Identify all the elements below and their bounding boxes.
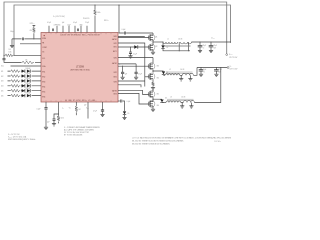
wire SYNC stub down xyxy=(87,102,89,119)
diode D31 (LED B) xyxy=(27,69,30,72)
svg-text:L1 TO L3: EACH INDUCTOR WOUND: L1 TO L3: EACH INDUCTOR WOUND ON SEPARAT… xyxy=(132,137,232,140)
wire IC top pin stubs xyxy=(49,26,87,33)
wire row 3 xyxy=(8,80,42,82)
transistor M4 (bridge B low side) xyxy=(148,73,155,80)
ground below T3 stub 2 xyxy=(189,106,193,108)
capacitor C18 comp xyxy=(3,55,5,58)
ground below D5 xyxy=(122,117,126,119)
capacitor C14 SS xyxy=(44,108,47,109)
wire T3 secondary stubs xyxy=(182,103,191,106)
wire row 1 xyxy=(8,70,42,72)
svg-text:ISN3: ISN3 xyxy=(113,94,117,96)
svg-text:FB: FB xyxy=(42,42,44,44)
wire RT stub xyxy=(58,102,60,116)
ground below C6 xyxy=(130,54,132,56)
svg-text:100k: 100k xyxy=(97,12,101,14)
svg-text:1N5062: 1N5062 xyxy=(26,88,31,90)
transformer T3 primary winding xyxy=(166,101,181,102)
wire row 6 xyxy=(8,95,42,97)
wire T1 secondary stubs xyxy=(179,42,188,51)
diode D21 (LED A) xyxy=(22,69,25,72)
wire PWM RC line xyxy=(12,38,41,40)
ground below C7 xyxy=(198,50,202,52)
transistor M1 (bridge A high side) xyxy=(152,33,154,36)
diode D36 (LED B) xyxy=(27,94,30,97)
node bridge A switch xyxy=(152,41,153,42)
capacitor C17 VC 0.1uF xyxy=(118,100,120,102)
svg-text:BST1: BST1 xyxy=(113,51,117,53)
ground below C16 xyxy=(100,114,104,116)
svg-text:4.7µF: 4.7µF xyxy=(138,73,142,75)
svg-text:VOUT: VOUT xyxy=(229,54,233,56)
IC U1 pin ticks top xyxy=(46,33,111,35)
svg-text:COMP: COMP xyxy=(42,47,47,49)
capacitor C7 output A first xyxy=(199,42,201,46)
capacitor C1 series xyxy=(22,38,23,41)
ground below stub xyxy=(10,45,14,47)
transistor M6 (bridge C low side) xyxy=(148,100,155,107)
transistor M5 (bridge C high side) xyxy=(152,89,154,91)
diode D2 (stage B rectifier) xyxy=(162,71,165,74)
wire SS stub xyxy=(45,102,47,108)
svg-text:1µF: 1µF xyxy=(84,105,87,107)
svg-text:10V TO 20V: 10V TO 20V xyxy=(230,69,238,71)
svg-text:ISN1: ISN1 xyxy=(113,47,117,49)
capacitor C6 bootstrap xyxy=(130,47,132,52)
ground below C14 wire xyxy=(44,127,48,129)
transformer T1 secondary winding xyxy=(180,42,191,44)
diode D32 (LED B) xyxy=(27,74,30,77)
wire VX sense rail (top inner) xyxy=(14,5,231,55)
resistor R1 divider (VOUT feedback) xyxy=(5,54,14,57)
svg-text:DI2: DI2 xyxy=(1,76,4,78)
svg-text:VSFB: VSFB xyxy=(86,108,89,110)
svg-text:SW1: SW1 xyxy=(113,36,116,38)
svg-text:SS GND RT SYNC INTVCC: SS GND RT SYNC INTVCC VC GND xyxy=(65,100,96,102)
IC U1 pin ticks bottom xyxy=(46,100,111,102)
svg-text:EN6: EN6 xyxy=(42,97,45,99)
wire second line into pin xyxy=(20,43,41,45)
svg-text:M5: M5 xyxy=(157,93,159,95)
ground below C12 xyxy=(121,77,125,79)
svg-text:M6: M6 xyxy=(157,105,159,107)
svg-text:(EXPOSED PAD IS GND): (EXPOSED PAD IS GND) xyxy=(70,68,90,71)
svg-text:1:0.33: 1:0.33 xyxy=(180,69,184,71)
svg-text:1N5062: 1N5062 xyxy=(26,93,31,95)
svg-text:1N5062: 1N5062 xyxy=(26,83,31,85)
wire VOUT sense rail (top outer) xyxy=(4,2,227,55)
svg-text:SCL: SCL xyxy=(42,58,45,60)
svg-text:22µF: 22µF xyxy=(218,69,221,71)
svg-text:L3: L3 xyxy=(170,96,172,98)
diode D3 (stage C rectifier) xyxy=(160,100,163,103)
wire ISP2 stub xyxy=(118,80,145,82)
svg-text:DI5: DI5 xyxy=(1,91,4,93)
svg-text:DI1: DI1 xyxy=(1,71,4,73)
capacitor C8 output A second xyxy=(210,42,212,46)
svg-text:VC: VC xyxy=(69,107,71,109)
IC U1 LT3598 body xyxy=(41,33,118,103)
capacitor C13 4.7uF xyxy=(135,64,137,72)
svg-text:VX: VX xyxy=(230,66,232,68)
transformer T1 primary winding xyxy=(163,42,178,43)
wire switch node B to T2 xyxy=(164,74,166,76)
capacitor C16 INTVCC 4.7uF xyxy=(102,102,104,110)
resistor R8 pull xyxy=(75,102,77,106)
svg-text:12V TO 20V: 12V TO 20V xyxy=(229,57,237,59)
capacitor C15 xyxy=(54,114,59,119)
svg-text:100pF: 100pF xyxy=(10,31,14,33)
svg-text:BT TO BG: BSC0402NS: BT TO BG: BSC0402NS xyxy=(64,134,83,136)
svg-text:SCL: SCL xyxy=(1,66,4,68)
resistor R4 (PGOOD pullup) xyxy=(94,5,96,10)
node bridge B switch xyxy=(152,70,153,71)
capacitor C3 (INTVCC bypass) xyxy=(77,29,78,32)
transistor M3 (bridge B high side) xyxy=(118,58,153,64)
svg-text:1µF: 1µF xyxy=(62,22,65,24)
svg-text:EN5: EN5 xyxy=(42,92,45,94)
svg-text:SW3: SW3 xyxy=(113,82,116,84)
svg-text:INTVCC: INTVCC xyxy=(104,20,109,22)
capacitor C11 output B second xyxy=(215,68,217,70)
svg-text:22µF: 22µF xyxy=(203,45,206,47)
terminal VOUT xyxy=(226,54,228,56)
capacitor C10 output B first xyxy=(200,68,202,70)
diode D1 (stage A rectifier) xyxy=(162,41,163,42)
svg-text:VIN (10V TO 30V): VIN (10V TO 30V) xyxy=(53,16,65,18)
svg-text:INTVCC: INTVCC xyxy=(30,23,35,25)
wire switch node C to T3 xyxy=(162,102,166,104)
svg-text:1N5062: 1N5062 xyxy=(26,78,31,80)
ground below C11 xyxy=(214,74,218,76)
wire stub to ground xyxy=(11,39,13,46)
zener diode D5 xyxy=(123,101,125,111)
svg-text:EN2: EN2 xyxy=(42,77,45,79)
transistor M2 (bridge A low side) xyxy=(148,44,155,51)
svg-text:EN3: EN3 xyxy=(42,82,45,84)
ground below M6 xyxy=(152,106,154,109)
capacitor C4 0.1uF (boost) xyxy=(124,32,125,35)
terminal VX xyxy=(227,67,229,69)
svg-text:10k: 10k xyxy=(25,60,28,62)
svg-text:22µF: 22µF xyxy=(203,69,206,71)
wire gate drive M4 xyxy=(145,76,149,78)
svg-text:fSW: fSW xyxy=(62,107,64,109)
svg-text:1N5062: 1N5062 xyxy=(26,73,31,75)
resistor R11 xyxy=(10,70,20,73)
svg-text:SS: SS xyxy=(42,51,44,53)
diode D22 (LED A) xyxy=(22,74,25,77)
resistor R7 sense (bridge B) xyxy=(152,80,154,82)
resistor R12 xyxy=(10,75,20,78)
svg-text:4.7µF: 4.7µF xyxy=(47,22,51,24)
node VIN feed stage A xyxy=(118,4,119,5)
svg-text:EN1: EN1 xyxy=(42,72,45,74)
svg-text:M1: M1 xyxy=(155,36,157,38)
svg-text:54.9k: 54.9k xyxy=(61,118,65,120)
svg-text:VOUT: VOUT xyxy=(211,38,215,40)
diode D35 (LED B) xyxy=(27,89,30,92)
diode D26 (LED A) xyxy=(22,94,25,97)
resistor R14 xyxy=(10,84,20,87)
resistor R6 CTRL with label xyxy=(35,61,41,63)
svg-text:M4: M4 xyxy=(157,78,159,80)
ground below T2 stub 1 xyxy=(179,79,183,81)
resistor R15 xyxy=(10,89,20,92)
svg-text:LT3598: LT3598 xyxy=(76,66,85,69)
svg-text:ISP1: ISP1 xyxy=(113,43,116,45)
wire SW1 stub xyxy=(118,36,145,38)
ground below T2 stub 2 xyxy=(188,79,192,81)
diode D25 (LED A) xyxy=(22,89,25,92)
ground below C8 xyxy=(209,50,213,52)
ground below C10 xyxy=(199,74,203,76)
resistor R3 pullup INTVCC xyxy=(33,25,36,27)
wire T2 secondary stubs xyxy=(181,75,190,78)
node stage A out to rail xyxy=(230,41,231,42)
svg-text:D5: D5 xyxy=(128,113,130,115)
resistor R5 RT xyxy=(57,116,60,122)
svg-text:4.7µF: 4.7µF xyxy=(93,110,97,112)
svg-text:0.1µF: 0.1µF xyxy=(73,22,77,24)
wire GATE routing vertical xyxy=(118,43,145,87)
svg-text:0.1µF: 0.1µF xyxy=(133,53,137,55)
svg-text:D1: D1 xyxy=(167,47,169,49)
svg-text:SWITCHING FREQUENCY: 350kHz: SWITCHING FREQUENCY: 350kHz xyxy=(8,139,35,141)
IC U1 pin1 mark xyxy=(44,35,45,36)
transformer T3 core lines xyxy=(167,99,194,100)
resistor R16 xyxy=(10,94,20,97)
svg-text:SW2: SW2 xyxy=(113,58,116,60)
ground below T3 stub 1 xyxy=(180,106,184,108)
wire gate drive M5 xyxy=(118,90,149,94)
svg-text:10µF: 10µF xyxy=(67,24,70,26)
svg-text:1µF: 1µF xyxy=(125,73,128,75)
wire gate drive M6 xyxy=(118,93,149,104)
ground below C15 xyxy=(52,124,56,126)
svg-text:M1, M2, M5: VISHAY SILICONIX S: M1, M2, M5: VISHAY SILICONIX Si7308DN 60… xyxy=(132,140,184,143)
transformer T3 secondary winding xyxy=(183,101,194,103)
diode D6 bootstrap xyxy=(134,45,138,49)
diode D24 (LED A) xyxy=(22,84,25,87)
svg-text:ISN2: ISN2 xyxy=(113,77,117,79)
wire row 4 xyxy=(8,85,42,87)
resistor R13 xyxy=(10,80,20,83)
svg-text:0.1µF: 0.1µF xyxy=(37,109,41,111)
svg-text:2.2µF: 2.2µF xyxy=(85,22,89,24)
svg-text:M3, M4, M6: VISHAY Si7308DN 60: M3, M4, M6: VISHAY Si7308DN 60V N-CHANNE… xyxy=(132,143,170,146)
svg-text:ISP2: ISP2 xyxy=(113,72,116,74)
svg-text:1µF: 1µF xyxy=(47,121,50,123)
svg-text:DI3: DI3 xyxy=(1,81,4,83)
transformer T2 primary winding xyxy=(165,74,180,75)
svg-text:M3: M3 xyxy=(157,65,159,67)
wire row 5 xyxy=(8,90,42,92)
capacitor C12 1uF xyxy=(118,63,136,65)
ground below C13 xyxy=(134,77,138,79)
svg-text:1N5062: 1N5062 xyxy=(26,68,31,70)
wire ISN2 stub xyxy=(118,85,141,87)
transformer T2 secondary winding xyxy=(182,73,193,75)
svg-text:(OFF/ON): (OFF/ON) xyxy=(54,24,61,26)
svg-text:PGOOD: PGOOD xyxy=(83,18,90,20)
svg-text:0.1µF: 0.1µF xyxy=(122,29,126,31)
svg-text:47k: 47k xyxy=(30,30,33,32)
transformer T2 core lines xyxy=(166,72,193,73)
svg-text:1:0.33: 1:0.33 xyxy=(181,96,185,98)
wire VX output line xyxy=(197,67,227,69)
wire C14 down long xyxy=(45,109,47,127)
diode D33 (LED B) xyxy=(27,79,30,82)
svg-text:L1: L1 xyxy=(167,39,169,41)
svg-text:DI6: DI6 xyxy=(1,95,4,97)
ground below R7 xyxy=(151,88,155,90)
svg-text:D3: D3 xyxy=(165,98,167,100)
svg-text:DI4: DI4 xyxy=(1,86,4,88)
svg-text:EN4: EN4 xyxy=(42,87,45,89)
svg-text:50V: 50V xyxy=(214,47,217,49)
ground below M2 xyxy=(152,50,154,53)
capacitor C2 (VIN bypass) xyxy=(52,29,53,32)
svg-text:M2: M2 xyxy=(155,46,157,48)
svg-text:0.1µF: 0.1µF xyxy=(127,101,131,103)
diode D34 (LED B) xyxy=(27,84,30,87)
svg-text:22µF: 22µF xyxy=(214,45,217,47)
diode D23 (LED A) xyxy=(22,79,25,82)
svg-text:GND: GND xyxy=(79,24,82,26)
svg-text:115k: 115k xyxy=(9,51,12,53)
transformer T1 core lines xyxy=(164,45,191,46)
wire VIN to bridge A xyxy=(119,5,153,33)
node bridge C switch xyxy=(152,99,153,100)
svg-text:L2: L2 xyxy=(169,69,171,71)
wire row 2 xyxy=(8,75,42,77)
svg-text:CLKOUT VIN VIN EN/UVLO INT: CLKOUT VIN VIN EN/UVLO INTVCC PGOOD BOOS… xyxy=(60,35,100,37)
svg-text:1:0.33: 1:0.33 xyxy=(178,39,182,41)
